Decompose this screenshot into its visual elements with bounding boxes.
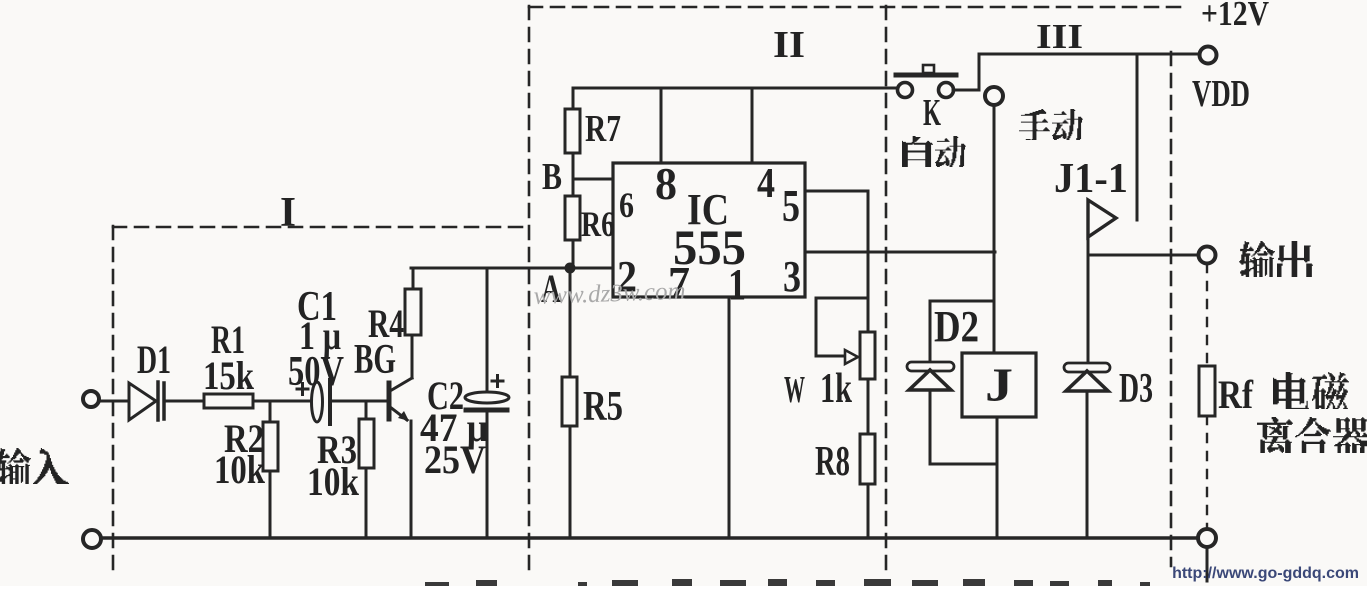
- diode D2 branch: [907, 301, 997, 464]
- diode D1: [129, 382, 164, 420]
- transistor BG: [389, 335, 412, 538]
- wire J1-1 pole down to D3: [1087, 236, 1090, 364]
- svg-text:50V: 50V: [288, 349, 344, 395]
- section II dashed box: [529, 6, 1185, 572]
- resistor R6: [565, 196, 580, 268]
- label liheqi (clutch): [1257, 417, 1293, 453]
- wire pin 5: [805, 191, 868, 252]
- node-A horizontal wire: [411, 267, 613, 270]
- section I dashed box: [113, 226, 529, 572]
- svg-text:R4: R4: [368, 301, 404, 346]
- node A junction dot: [565, 263, 576, 274]
- dashed wire Rf to bottom terminal: [1206, 416, 1208, 529]
- svg-text:10k: 10k: [214, 447, 266, 492]
- wire pin 8: [660, 88, 663, 163]
- svg-text:R5: R5: [583, 384, 623, 430]
- cut-off text row at bottom edge: [425, 579, 1150, 586]
- wire K to +12V rail: [953, 54, 1200, 90]
- wire input to D1: [99, 400, 128, 403]
- potentiometer W body: [860, 252, 875, 434]
- dashed wire to Rf: [1206, 264, 1208, 366]
- wire J to ground rail: [996, 417, 999, 538]
- svg-text:1k: 1k: [820, 366, 852, 412]
- svg-text:II: II: [773, 24, 805, 66]
- ground rail: [101, 536, 1198, 540]
- relay coil J box: [962, 353, 1036, 417]
- top rail of section II: [573, 87, 897, 90]
- svg-text:K: K: [923, 92, 941, 134]
- resistor R3: [359, 401, 374, 538]
- resistor Rf: [1199, 366, 1215, 416]
- svg-text:VDD: VDD: [1192, 73, 1250, 115]
- resistor R7: [565, 88, 580, 196]
- svg-text:3: 3: [783, 252, 801, 301]
- op IC 555 box: [613, 163, 805, 297]
- resistor R5: [562, 268, 577, 538]
- svg-text:10k: 10k: [307, 459, 360, 504]
- label zidong (auto): [902, 136, 933, 167]
- output wire: [1088, 254, 1199, 257]
- output terminal: [1199, 247, 1216, 264]
- capacitor C1: [297, 380, 330, 424]
- svg-text:D2: D2: [934, 302, 979, 351]
- wire R1 to C1: [253, 400, 315, 403]
- svg-text:4: 4: [757, 161, 775, 207]
- wire pin 1: [728, 297, 731, 538]
- section III dashed right boundary: [1170, 52, 1173, 566]
- +12V terminal: [1200, 47, 1217, 64]
- label shuru (input): [0, 448, 31, 484]
- bottom-left terminal: [83, 530, 101, 548]
- resistor R8: [860, 434, 875, 538]
- wire C1 to BG base: [330, 400, 387, 403]
- svg-text:J1-1: J1-1: [1054, 156, 1128, 202]
- svg-text:J: J: [985, 359, 1013, 412]
- wire manual to relay J: [993, 105, 996, 353]
- svg-text:6: 6: [619, 185, 634, 225]
- stub below bottom-right terminal: [1206, 547, 1209, 581]
- svg-text:1: 1: [728, 260, 746, 309]
- label shoudong (manual): [1019, 109, 1050, 140]
- relay contact J1-1 fixed arm: [1136, 54, 1139, 220]
- svg-text:D3: D3: [1119, 366, 1153, 412]
- svg-text:+12V: +12V: [1201, 0, 1269, 33]
- relay contact J1-1 flag: [1088, 200, 1116, 237]
- svg-text:Rf: Rf: [1218, 372, 1254, 417]
- wire D1 to R1: [165, 400, 204, 403]
- svg-text:I: I: [280, 190, 296, 236]
- svg-text:5: 5: [782, 180, 800, 231]
- diode D3: [1064, 363, 1110, 538]
- svg-text:W: W: [784, 369, 805, 411]
- svg-text:B: B: [542, 156, 562, 198]
- node B wire to pin6: [573, 178, 613, 181]
- svg-text:D1: D1: [137, 337, 171, 382]
- svg-text:www.dz3w.com: www.dz3w.com: [533, 278, 686, 310]
- potentiometer wiper loop: [816, 298, 867, 364]
- svg-text:R6: R6: [581, 204, 615, 244]
- label dianci (electromagnetic): [1273, 372, 1309, 409]
- svg-text:R7: R7: [585, 108, 621, 150]
- svg-text:15k: 15k: [203, 353, 255, 398]
- svg-text:25V: 25V: [424, 437, 486, 482]
- wire pin 4: [751, 88, 754, 163]
- capacitor C2: [465, 268, 509, 538]
- wire pin 3: [805, 251, 995, 254]
- resistor R4: [405, 268, 421, 335]
- svg-text:8: 8: [655, 158, 677, 209]
- manual terminal: [985, 87, 1003, 105]
- svg-text:R8: R8: [815, 439, 850, 485]
- resistor R1: [204, 394, 253, 408]
- resistor R2: [263, 401, 278, 538]
- bottom-right terminal: [1198, 529, 1216, 547]
- input terminal: [83, 391, 99, 407]
- svg-text:http://www.go-gddq.com: http://www.go-gddq.com: [1172, 565, 1359, 582]
- switch K: [896, 65, 956, 98]
- svg-text:III: III: [1036, 17, 1083, 56]
- label shuchu (output): [1239, 241, 1275, 277]
